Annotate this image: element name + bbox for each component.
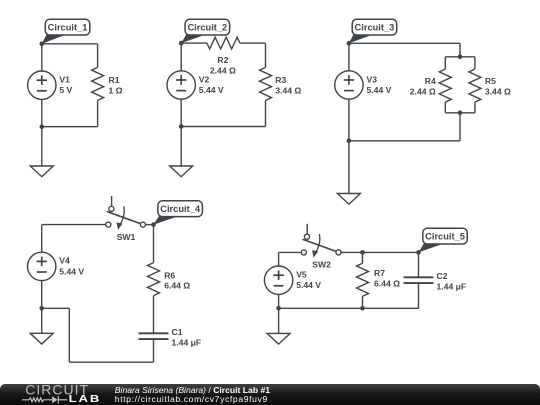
svg-text:Circuit_1: Circuit_1 — [48, 23, 88, 33]
svg-text:3.44 Ω: 3.44 Ω — [485, 86, 511, 96]
svg-text:LAB: LAB — [69, 394, 102, 405]
svg-text:6.44 Ω: 6.44 Ω — [374, 279, 400, 289]
svg-text:SW2: SW2 — [312, 260, 331, 270]
svg-text:V2: V2 — [199, 74, 210, 84]
svg-text:V4: V4 — [59, 256, 70, 266]
svg-text:C2: C2 — [437, 271, 448, 281]
svg-text:1 Ω: 1 Ω — [109, 85, 123, 95]
svg-text:SW1: SW1 — [117, 232, 136, 242]
svg-text:6.44 Ω: 6.44 Ω — [164, 281, 190, 291]
svg-text:R6: R6 — [164, 270, 175, 280]
svg-text:R7: R7 — [374, 268, 385, 278]
svg-text:R1: R1 — [109, 75, 120, 85]
svg-text:1.44 μF: 1.44 μF — [172, 337, 202, 347]
svg-text:V1: V1 — [59, 75, 70, 85]
svg-text:3.44 Ω: 3.44 Ω — [275, 85, 301, 95]
svg-text:Circuit_5: Circuit_5 — [425, 232, 465, 242]
svg-text:Circuit_4: Circuit_4 — [160, 204, 201, 214]
svg-text:V5: V5 — [296, 270, 307, 280]
svg-text:5.44 V: 5.44 V — [296, 280, 321, 290]
svg-text:2.44 Ω: 2.44 Ω — [410, 86, 436, 96]
svg-text:R3: R3 — [275, 75, 286, 85]
svg-text:C1: C1 — [172, 327, 183, 337]
svg-text:R4: R4 — [425, 76, 436, 86]
svg-text:1.44 μF: 1.44 μF — [437, 281, 467, 291]
svg-text:Circuit_2: Circuit_2 — [187, 23, 227, 33]
svg-text:5 V: 5 V — [59, 85, 72, 95]
svg-text:Circuit_3: Circuit_3 — [355, 23, 395, 33]
svg-text:5.44 V: 5.44 V — [367, 85, 392, 95]
svg-text:5.44 V: 5.44 V — [199, 85, 224, 95]
svg-text:5.44 V: 5.44 V — [59, 266, 84, 276]
svg-text:V3: V3 — [367, 74, 378, 84]
svg-text:R2: R2 — [217, 55, 228, 65]
svg-text:R5: R5 — [485, 76, 496, 86]
svg-text:2.44 Ω: 2.44 Ω — [210, 65, 236, 75]
